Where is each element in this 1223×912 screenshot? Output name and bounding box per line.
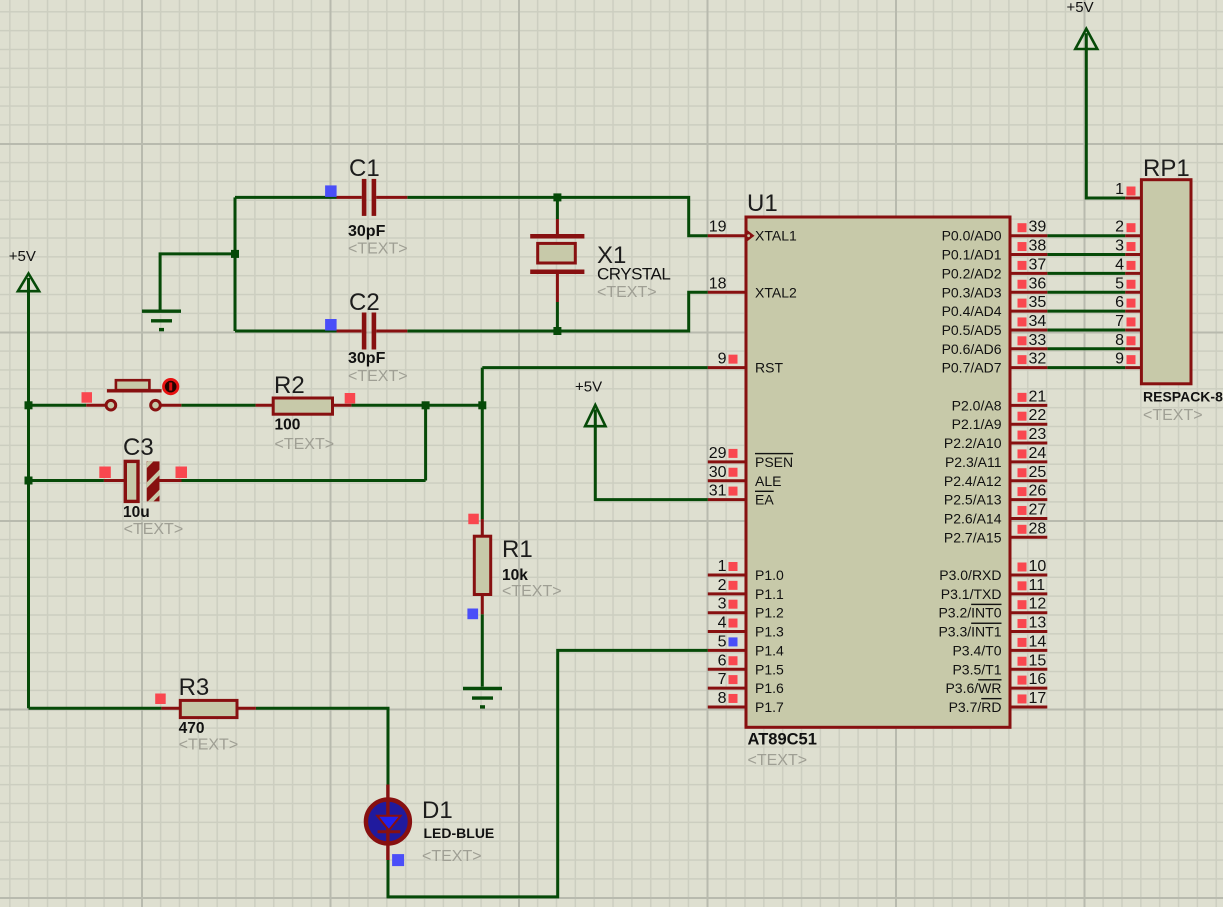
- svg-text:5: 5: [1115, 275, 1124, 292]
- svg-text:26: 26: [1029, 483, 1047, 500]
- svg-text:P0.3/AD3: P0.3/AD3: [942, 284, 1002, 300]
- svg-text:2: 2: [1115, 219, 1124, 236]
- svg-text:XTAL2: XTAL2: [755, 284, 797, 300]
- svg-text:<TEXT>: <TEXT>: [348, 241, 408, 258]
- svg-text:11: 11: [1029, 577, 1046, 594]
- svg-text:4: 4: [718, 615, 727, 632]
- svg-text:RESPACK-8: RESPACK-8: [1143, 389, 1223, 405]
- svg-text:100: 100: [275, 417, 301, 434]
- svg-text:22: 22: [1029, 407, 1047, 424]
- svg-text:P3.6/WR: P3.6/WR: [945, 680, 1001, 696]
- svg-text:18: 18: [709, 275, 727, 292]
- svg-text:P1.6: P1.6: [755, 680, 784, 696]
- svg-text:C1: C1: [349, 155, 380, 182]
- svg-text:34: 34: [1029, 313, 1047, 330]
- svg-text:P2.1/A9: P2.1/A9: [952, 416, 1002, 432]
- svg-text:RST: RST: [755, 360, 783, 376]
- svg-text:P0.6/AD6: P0.6/AD6: [942, 341, 1002, 357]
- svg-text:PSEN: PSEN: [755, 454, 793, 470]
- svg-text:P1.5: P1.5: [755, 661, 784, 677]
- svg-text:<TEXT>: <TEXT>: [348, 368, 408, 385]
- svg-text:AT89C51: AT89C51: [748, 731, 817, 749]
- svg-text:31: 31: [709, 483, 727, 500]
- svg-text:+5V: +5V: [1067, 0, 1094, 16]
- svg-text:R2: R2: [274, 372, 305, 399]
- svg-text:P0.5/AD5: P0.5/AD5: [942, 322, 1002, 338]
- svg-text:<TEXT>: <TEXT>: [502, 583, 562, 600]
- svg-text:16: 16: [1029, 671, 1047, 688]
- svg-text:P3.1/TXD: P3.1/TXD: [941, 586, 1002, 602]
- svg-text:P0.2/AD2: P0.2/AD2: [942, 265, 1002, 281]
- svg-text:P3.7/RD: P3.7/RD: [949, 699, 1002, 715]
- svg-text:P1.3: P1.3: [755, 624, 784, 640]
- svg-text:D1: D1: [422, 797, 453, 824]
- svg-text:P1.7: P1.7: [755, 699, 784, 715]
- svg-text:30pF: 30pF: [348, 223, 386, 240]
- svg-text:27: 27: [1029, 501, 1047, 518]
- svg-text:+5V: +5V: [9, 248, 36, 265]
- svg-text:4: 4: [1115, 256, 1124, 273]
- svg-text:5: 5: [718, 633, 727, 650]
- svg-text:RP1: RP1: [1143, 155, 1190, 182]
- svg-text:1: 1: [1115, 181, 1124, 198]
- svg-text:33: 33: [1029, 332, 1047, 349]
- svg-text:P2.4/A12: P2.4/A12: [944, 473, 1002, 489]
- svg-text:P3.3/INT1: P3.3/INT1: [938, 624, 1001, 640]
- svg-text:R3: R3: [179, 674, 210, 701]
- svg-text:36: 36: [1029, 275, 1047, 292]
- svg-text:15: 15: [1029, 652, 1047, 669]
- svg-text:7: 7: [718, 671, 727, 688]
- svg-text:10: 10: [1029, 558, 1047, 575]
- svg-text:P0.1/AD1: P0.1/AD1: [942, 247, 1002, 263]
- svg-text:8: 8: [718, 690, 727, 707]
- svg-text:<TEXT>: <TEXT>: [748, 752, 808, 769]
- svg-text:1: 1: [718, 558, 727, 575]
- svg-text:9: 9: [718, 351, 727, 368]
- svg-text:38: 38: [1029, 238, 1047, 255]
- svg-text:<TEXT>: <TEXT>: [275, 436, 335, 453]
- svg-text:13: 13: [1029, 615, 1047, 632]
- svg-text:EA: EA: [755, 492, 774, 508]
- svg-text:6: 6: [1115, 294, 1124, 311]
- svg-text:37: 37: [1029, 256, 1047, 273]
- svg-text:10k: 10k: [502, 567, 528, 584]
- svg-text:P3.0/RXD: P3.0/RXD: [939, 567, 1001, 583]
- svg-text:<TEXT>: <TEXT>: [1143, 407, 1203, 424]
- svg-text:P2.7/A15: P2.7/A15: [944, 529, 1002, 545]
- svg-text:30: 30: [709, 464, 727, 481]
- svg-text:P1.0: P1.0: [755, 567, 784, 583]
- svg-text:P0.0/AD0: P0.0/AD0: [942, 228, 1002, 244]
- svg-text:C3: C3: [123, 434, 154, 461]
- svg-text:30pF: 30pF: [348, 350, 386, 367]
- svg-text:39: 39: [1029, 219, 1047, 236]
- svg-text:2: 2: [718, 577, 727, 594]
- svg-text:<TEXT>: <TEXT>: [422, 848, 482, 865]
- svg-text:28: 28: [1029, 520, 1047, 537]
- svg-text:P2.3/A11: P2.3/A11: [945, 454, 1002, 470]
- svg-text:U1: U1: [747, 190, 778, 217]
- svg-text:ALE: ALE: [755, 473, 781, 489]
- svg-text:19: 19: [709, 219, 727, 236]
- svg-text:XTAL1: XTAL1: [755, 228, 797, 244]
- svg-text:14: 14: [1029, 633, 1047, 650]
- svg-text:<TEXT>: <TEXT>: [179, 737, 239, 754]
- svg-text:CRYSTAL: CRYSTAL: [597, 265, 670, 284]
- svg-text:35: 35: [1029, 294, 1047, 311]
- svg-text:LED-BLUE: LED-BLUE: [424, 825, 495, 841]
- svg-text:8: 8: [1115, 332, 1124, 349]
- svg-text:32: 32: [1029, 351, 1047, 368]
- svg-text:6: 6: [718, 652, 727, 669]
- svg-text:7: 7: [1115, 313, 1124, 330]
- svg-text:P2.6/A14: P2.6/A14: [944, 510, 1002, 526]
- svg-text:R1: R1: [502, 536, 533, 563]
- svg-text:P2.5/A13: P2.5/A13: [944, 492, 1002, 508]
- svg-text:+5V: +5V: [575, 379, 602, 396]
- svg-text:<TEXT>: <TEXT>: [597, 284, 657, 301]
- svg-text:23: 23: [1029, 426, 1047, 443]
- svg-text:17: 17: [1029, 690, 1047, 707]
- svg-text:3: 3: [718, 596, 727, 613]
- svg-text:P3.5/T1: P3.5/T1: [952, 661, 1001, 677]
- svg-text:25: 25: [1029, 464, 1047, 481]
- svg-text:P1.1: P1.1: [755, 586, 784, 602]
- svg-text:P3.2/INT0: P3.2/INT0: [938, 605, 1001, 621]
- svg-text:21: 21: [1029, 388, 1047, 405]
- svg-text:24: 24: [1029, 445, 1047, 462]
- svg-text:P3.4/T0: P3.4/T0: [952, 642, 1001, 658]
- svg-text:P0.4/AD4: P0.4/AD4: [942, 303, 1002, 319]
- svg-text:C2: C2: [349, 289, 380, 316]
- svg-text:P0.7/AD7: P0.7/AD7: [942, 360, 1002, 376]
- svg-text:P1.2: P1.2: [755, 605, 784, 621]
- svg-text:3: 3: [1115, 238, 1124, 255]
- svg-text:P2.0/A8: P2.0/A8: [952, 397, 1002, 413]
- svg-text:9: 9: [1115, 351, 1124, 368]
- svg-text:P1.4: P1.4: [755, 642, 784, 658]
- svg-text:12: 12: [1029, 596, 1047, 613]
- svg-text:29: 29: [709, 445, 727, 462]
- svg-text:10u: 10u: [123, 504, 150, 521]
- svg-text:470: 470: [179, 720, 205, 737]
- svg-text:<TEXT>: <TEXT>: [124, 521, 184, 538]
- svg-text:P2.2/A10: P2.2/A10: [944, 435, 1002, 451]
